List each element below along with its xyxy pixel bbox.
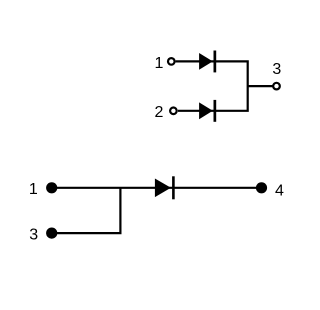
svg-text:1: 1 — [154, 55, 163, 72]
svg-text:1: 1 — [29, 181, 38, 198]
svg-text:3: 3 — [272, 61, 281, 78]
svg-text:4: 4 — [275, 183, 284, 200]
svg-text:2: 2 — [155, 104, 164, 121]
svg-text:3: 3 — [29, 227, 38, 244]
